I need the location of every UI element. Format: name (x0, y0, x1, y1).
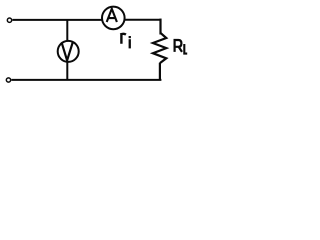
label R_L : subscript L (184, 44, 187, 54)
wire top-left to ammeter (12, 19, 101, 21)
wire ammeter to top-right corner (125, 19, 162, 21)
wire junction to voltmeter (66, 19, 68, 42)
voltmeter U2 circle (58, 41, 79, 62)
bottom-left terminal (6, 78, 10, 82)
label r_i : letter r (120, 33, 126, 43)
ammeter letter A (107, 9, 117, 22)
wire voltmeter to bottom wire (66, 62, 68, 81)
label R_L : letter R (174, 39, 182, 52)
ammeter U1 circle (102, 7, 125, 30)
voltmeter letter V (62, 42, 73, 60)
label r_i : subscript i (129, 36, 131, 38)
resistor RL zigzag (153, 33, 166, 63)
wire resistor to bottom wire (159, 63, 161, 80)
wire top-right corner down to resistor (159, 19, 161, 35)
bottom wire (11, 79, 161, 81)
top-left terminal (7, 18, 11, 22)
